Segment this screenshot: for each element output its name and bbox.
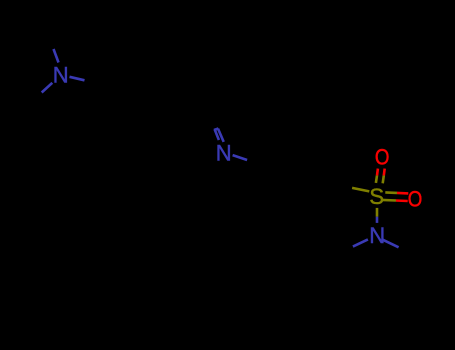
svg-text:N: N	[216, 141, 232, 166]
svg-text:S: S	[369, 184, 384, 209]
svg-text:N: N	[53, 62, 69, 87]
svg-text:O: O	[375, 146, 390, 170]
svg-text:O: O	[408, 188, 423, 212]
svg-text:N: N	[369, 223, 385, 248]
